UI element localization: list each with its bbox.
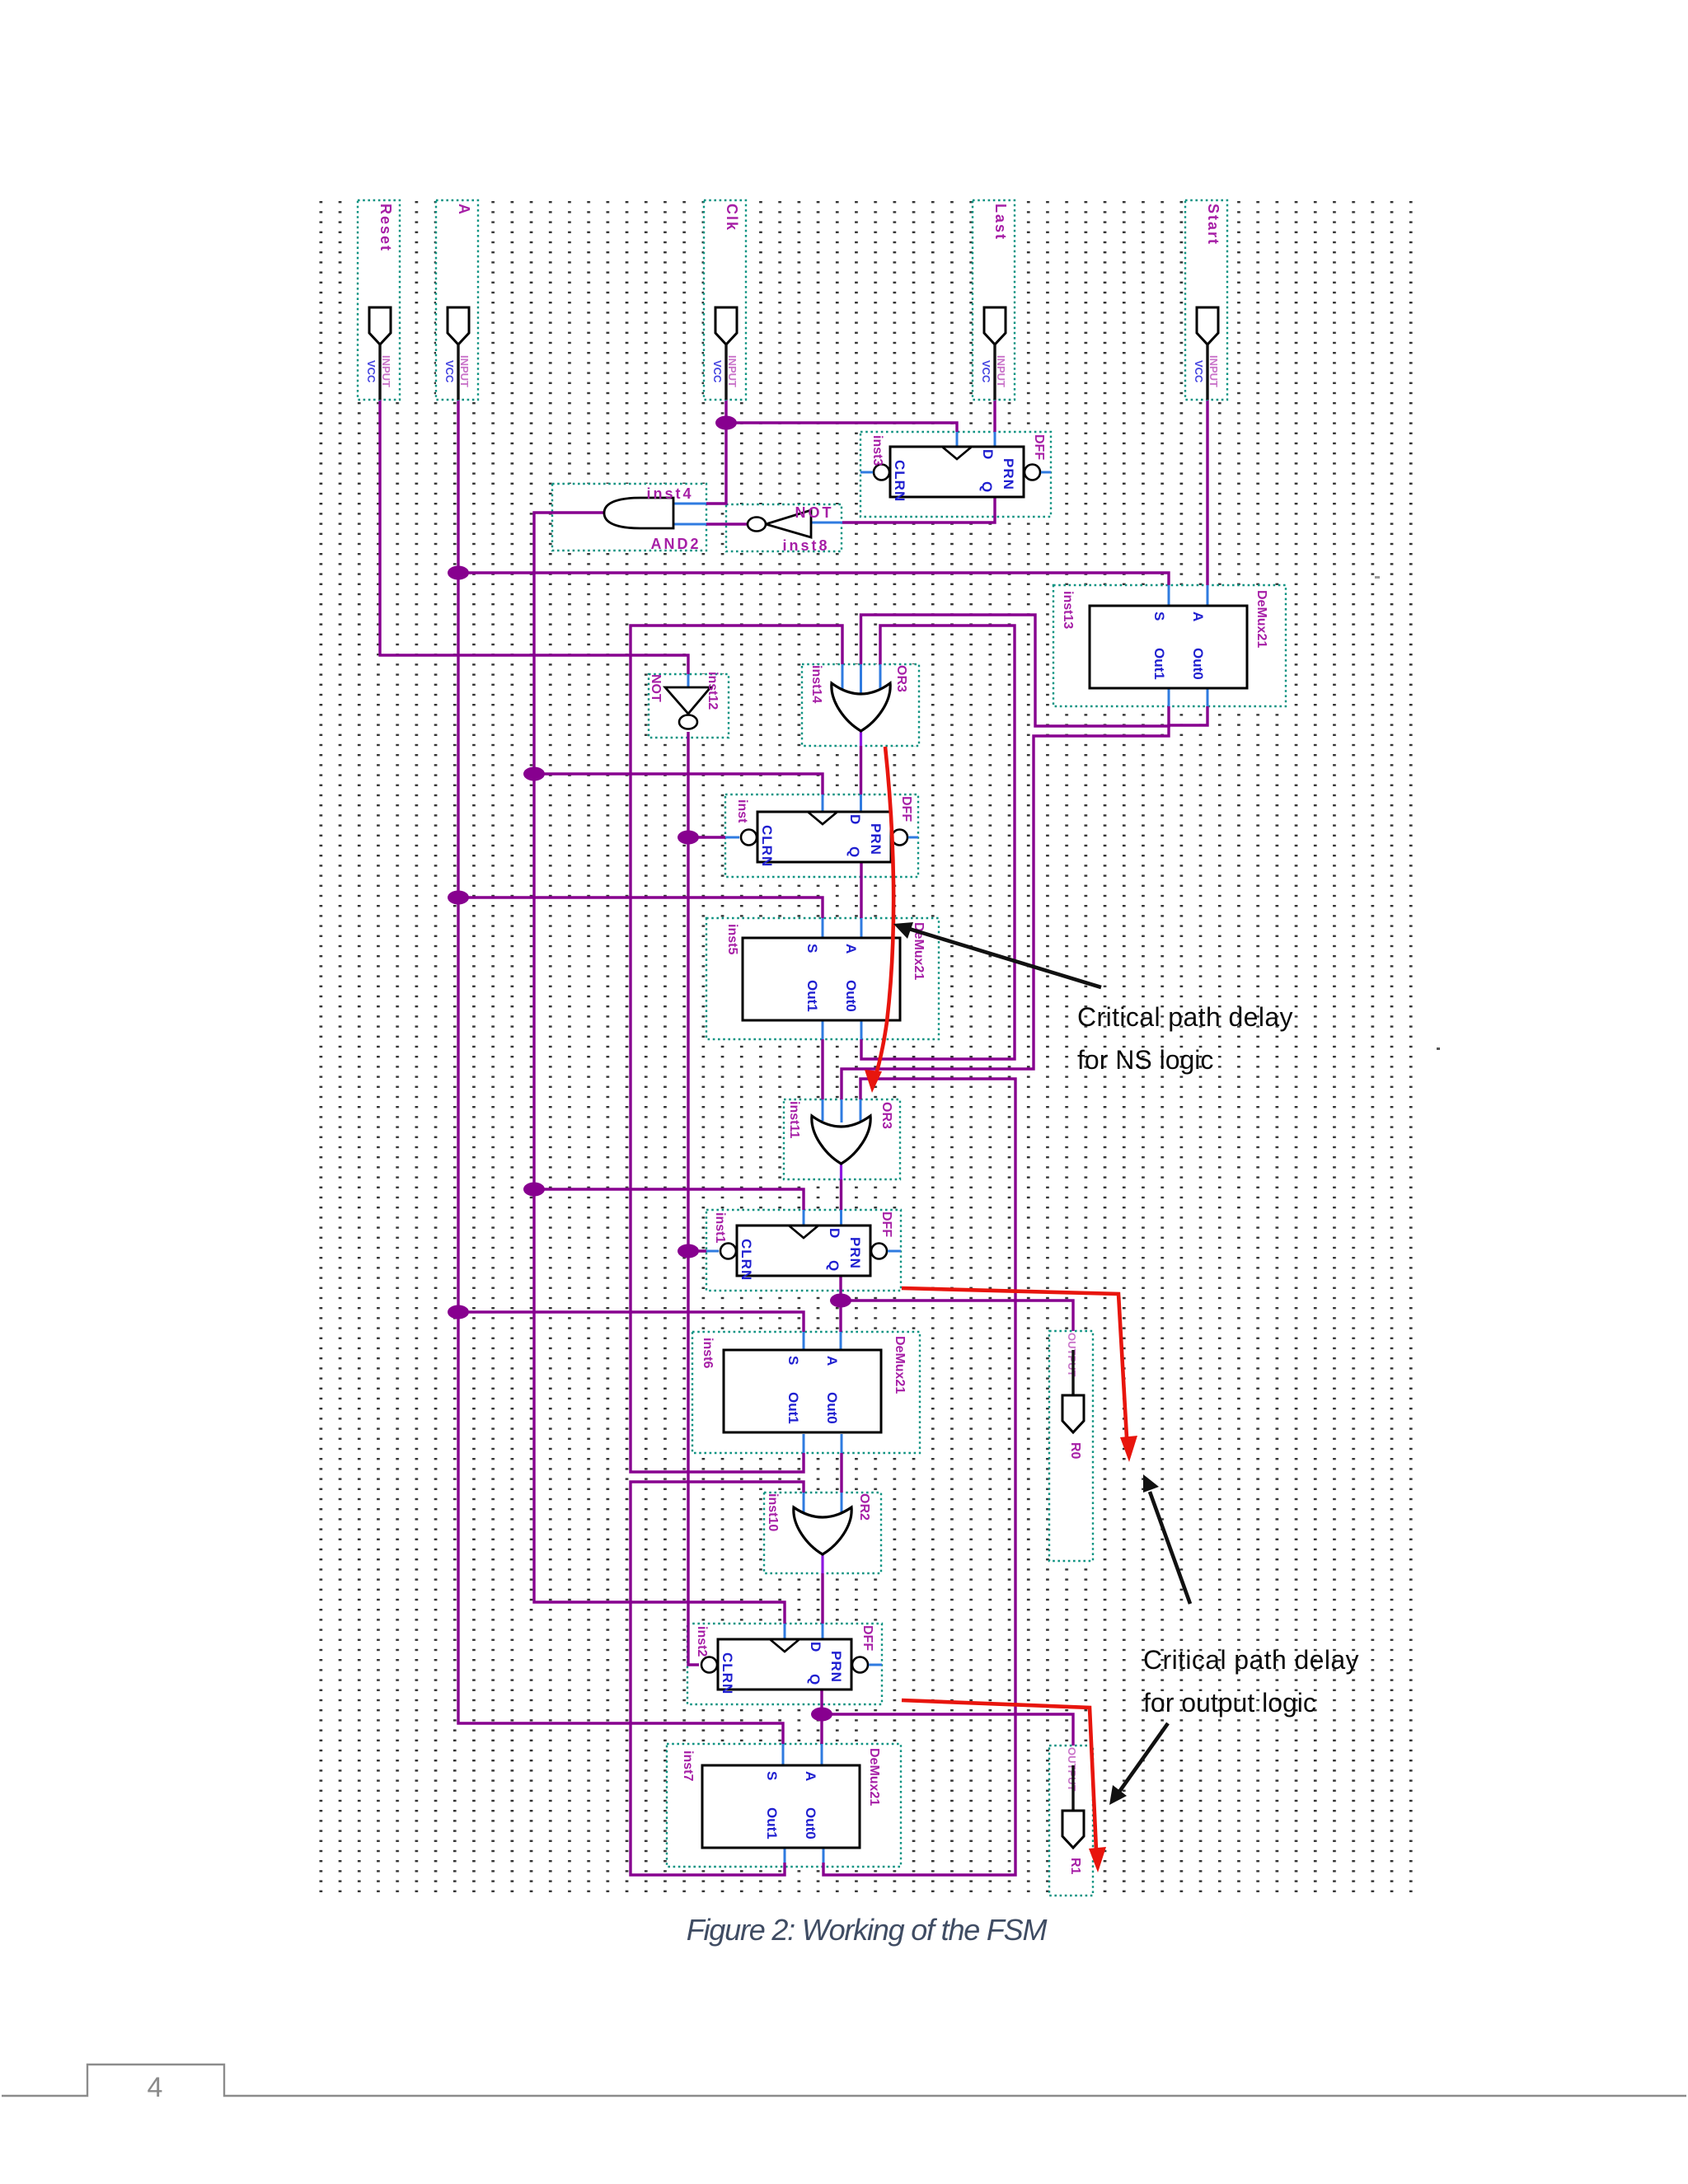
svg-text:Out1: Out1 [764,1807,780,1840]
annotation black arrow to R0 path [1143,1474,1190,1604]
svg-text:Q: Q [846,846,862,857]
svg-text:INPUT: INPUT [995,355,1007,387]
wire net Clk: pin to DFF inst3 clock and AND2 input [673,400,957,504]
svg-text:inst1: inst1 [713,1212,727,1243]
wire DeMux21 inst5 Out0 feedback to OR3 inst14 input [861,626,1015,1059]
svg-text:S: S [1151,612,1167,621]
svg-text:D: D [808,1642,823,1652]
OR gate OR3 inst14 [809,665,908,731]
svg-text:inst7: inst7 [681,1750,695,1781]
svg-text:Last: Last [992,204,1009,241]
selection box DeMux21 inst13 [1053,585,1286,706]
annotation text: Critical path delay for NS logic [1077,1002,1293,1075]
svg-text:PRN: PRN [847,1237,863,1269]
svg-text:OR2: OR2 [857,1493,871,1521]
wire DeMux21 inst13 Out1 feedback to OR3 inst14 input [861,615,1170,726]
svg-text:Out0: Out0 [803,1807,818,1840]
wire DeMux21 inst7 Out1 feedback to OR2 inst10 input [631,1482,804,1875]
output pin R0 [1049,1331,1093,1561]
svg-text:inst6: inst6 [701,1338,715,1368]
page footer [2,2064,1686,2103]
svg-text:DeMux21: DeMux21 [1254,590,1268,648]
svg-text:D: D [980,449,996,459]
wire DFF inst2 Q to DeMux21 inst7 A and output R1 [822,1690,1073,1811]
annotation red arrow to output R1 [902,1700,1106,1872]
annotation black arrow to R1 path [1109,1723,1168,1805]
wire DeMux21 inst5 Out1 to OR3 inst11 input [822,1020,824,1121]
wire OR3 inst14 output to DFF inst D [860,731,862,812]
svg-text:AND2: AND2 [650,536,701,552]
D flip-flop inst3 (DFF) [874,447,1040,502]
svg-text:VCC: VCC [443,360,456,383]
svg-text:D: D [827,1228,842,1238]
svg-text:VCC: VCC [365,360,377,383]
svg-text:OR3: OR3 [879,1102,893,1129]
input pin Clk [704,200,746,400]
svg-text:A: A [824,1356,840,1366]
svg-text:DeMux21: DeMux21 [893,1336,907,1394]
svg-text:Out1: Out1 [804,980,820,1012]
annotation red arrow: NS logic critical path [865,747,893,1093]
input pin Reset [358,200,400,400]
svg-text:INPUT: INPUT [458,355,471,387]
selection box AND2 inst4 [552,484,706,551]
svg-text:Out1: Out1 [785,1392,801,1424]
svg-text:for output logic: for output logic [1143,1688,1316,1718]
wire OR3 inst11 output to DFF inst1 D [840,1164,842,1226]
stray mark artifacts [1375,576,1380,579]
svg-text:S: S [764,1771,780,1780]
wire OR2 inst10 output to DFF inst2 D [821,1554,823,1639]
junction node A-inst5 [448,891,469,905]
selection box OR2 inst10 [764,1493,881,1573]
wire DeMux21 inst6 Out1 feedback to OR3 inst14 input [631,626,842,1472]
svg-text:R0: R0 [1068,1442,1082,1460]
svg-text:4: 4 [148,2072,163,2103]
svg-text:Q: Q [807,1674,823,1685]
OR gate OR2 inst10 [766,1493,871,1554]
junction node gclk-1 [523,767,545,781]
svg-text:VCC: VCC [711,360,724,383]
svg-text:NOT: NOT [649,674,663,702]
svg-text:VCC: VCC [1193,360,1205,383]
junction node rstn-1 [678,831,699,845]
annotation text: Critical path delay for output logic [1143,1645,1359,1718]
svg-text:PRN: PRN [868,823,884,855]
svg-text:S: S [804,944,820,953]
output pin R1 [1049,1746,1093,1896]
selection box NOT inst8 [726,504,842,551]
wire net A: pin to DeMux select inputs S [458,400,1169,1765]
svg-text:inst4: inst4 [646,485,693,502]
wire net reset-n: NOT inst12 output to DFF CLRN inputs [688,732,739,1665]
svg-text:inst: inst [735,799,749,823]
D flip-flop inst2 (DFF) [701,1639,868,1694]
wire net Start: pin to DeMux21 inst13 A [1206,400,1208,606]
svg-text:DFF: DFF [1032,434,1046,460]
svg-text:R1: R1 [1068,1858,1082,1875]
svg-text:DFF: DFF [899,796,913,822]
wire NOT inst8 output to AND2 inst4 input [673,523,748,525]
DeMux21 inst5 [743,938,900,1020]
NOT gate inst12 [649,672,720,729]
selection box DFF inst1 [706,1210,901,1291]
svg-text:Out1: Out1 [1151,648,1167,680]
OR gate OR3 inst11 [787,1101,893,1164]
svg-text:Out0: Out0 [843,980,859,1012]
svg-text:inst3: inst3 [870,435,884,466]
selection box OR3 inst11 [784,1099,900,1179]
wire DeMux21 inst6 Out0 to OR2 inst10 input [841,1434,843,1517]
D flip-flop inst (DFF) [741,812,907,867]
wire DFF inst1 Q to DeMux21 inst6 A and output R0 [841,1276,1073,1396]
selection box DFF inst2 [687,1624,882,1704]
svg-text:NOT: NOT [795,504,834,521]
annotation red arrow to output R0 [902,1288,1137,1462]
wire net Last: pin to DFF inst3 D [993,400,996,447]
svg-text:Out0: Out0 [1190,648,1206,680]
wire net Reset: pin to NOT inst12 input [380,400,688,687]
NOT gate inst8 [748,504,834,554]
junction node A-inst6 [448,1305,469,1319]
svg-text:inst12: inst12 [706,672,720,710]
selection box OR3 inst14 [802,664,919,746]
svg-text:Q: Q [826,1260,842,1271]
input pin Start [1185,200,1227,400]
junction node Clk [715,416,737,430]
junction node gclk-2 [523,1183,545,1197]
svg-text:PRN: PRN [1001,458,1016,490]
DeMux21 inst7 [702,1765,860,1848]
svg-text:Q: Q [979,481,995,492]
svg-text:PRN: PRN [828,1651,844,1683]
junction node Q1-R0 [830,1294,851,1308]
wire net gated clock: AND2 output to DFF clock inputs [534,513,823,1639]
selection box DeMux21 inst7 [667,1744,901,1867]
wire DeMux21 inst13 Out0 feedback to OR3 inst11 input [842,687,1207,1122]
selection box DeMux21 inst5 [706,918,939,1039]
svg-text:A: A [456,204,472,216]
annotation black arrow to NS critical path [893,922,1101,987]
wire DFF inst3 Q to NOT inst8 input [811,497,995,523]
DeMux21 inst13 [1090,606,1247,688]
svg-text:INPUT: INPUT [726,355,738,387]
selection box DeMux21 inst6 [692,1332,920,1453]
svg-text:S: S [785,1356,801,1365]
selection box DFF inst3 [860,432,1051,517]
svg-text:inst2: inst2 [695,1626,709,1657]
wire DeMux21 inst7 Out0 feedback to OR3 inst11 input [823,1079,1015,1875]
svg-text:Out0: Out0 [824,1392,840,1424]
svg-text:for NS logic: for NS logic [1077,1045,1213,1075]
schematic dot grid background [314,197,1428,1896]
selection box NOT inst12 [649,674,729,738]
svg-text:CLRN: CLRN [759,825,775,867]
svg-text:Reset: Reset [377,204,394,252]
svg-text:CLRN: CLRN [720,1652,735,1694]
svg-text:VCC: VCC [980,360,992,383]
wire DFF inst Q to DeMux21 inst5 A [860,862,862,938]
svg-text:A: A [803,1771,818,1781]
svg-text:CLRN: CLRN [738,1239,754,1281]
input pin Last [973,200,1015,400]
svg-text:inst8: inst8 [782,537,829,554]
svg-text:inst14: inst14 [809,665,823,703]
svg-text:inst5: inst5 [725,924,739,954]
DeMux21 inst6 [724,1350,881,1432]
svg-text:INPUT: INPUT [1207,355,1220,387]
svg-text:INPUT: INPUT [380,355,392,387]
svg-text:inst11: inst11 [787,1101,801,1138]
junction node rstn-2 [678,1244,699,1258]
svg-text:OR3: OR3 [894,665,908,692]
D flip-flop inst1 (DFF) [720,1226,887,1281]
svg-text:Figure 2: Working of the FSM: Figure 2: Working of the FSM [687,1913,1048,1947]
junction node Q2-R1 [811,1708,832,1722]
svg-text:Critical path delay: Critical path delay [1077,1002,1293,1032]
svg-text:inst10: inst10 [766,1493,780,1531]
svg-text:CLRN: CLRN [892,460,907,502]
svg-text:A: A [1190,612,1206,621]
svg-text:Clk: Clk [724,204,740,232]
svg-text:A: A [843,944,859,954]
selection box DFF inst [725,794,918,877]
svg-text:DeMux21: DeMux21 [867,1748,881,1806]
junction node A-inst13 [448,566,469,580]
input pin A [436,200,478,400]
svg-text:DFF: DFF [879,1212,893,1237]
AND gate AND2 inst4 [604,485,701,552]
svg-text:Start: Start [1205,204,1221,246]
svg-text:D: D [847,814,863,824]
svg-text:DFF: DFF [860,1625,874,1651]
svg-text:Critical path delay: Critical path delay [1143,1645,1359,1675]
svg-text:inst13: inst13 [1061,591,1075,629]
